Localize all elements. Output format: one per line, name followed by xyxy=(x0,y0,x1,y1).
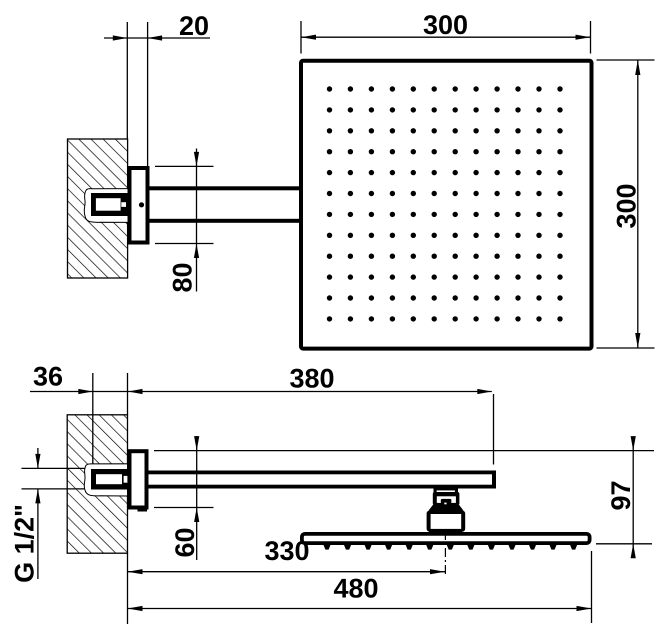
svg-text:97: 97 xyxy=(606,480,636,510)
svg-text:60: 60 xyxy=(170,527,200,557)
svg-text:20: 20 xyxy=(179,11,209,41)
svg-text:36: 36 xyxy=(33,362,63,392)
svg-text:G 1/2": G 1/2" xyxy=(10,504,40,583)
svg-text:300: 300 xyxy=(423,10,468,40)
svg-text:380: 380 xyxy=(289,364,334,394)
svg-text:80: 80 xyxy=(168,262,198,292)
svg-text:480: 480 xyxy=(333,574,378,604)
svg-text:330: 330 xyxy=(264,536,309,566)
svg-text:300: 300 xyxy=(612,183,642,228)
